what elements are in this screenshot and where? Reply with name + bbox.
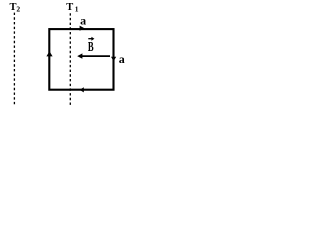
B field arrow: [82, 55, 111, 57]
vector arrow over B: [88, 38, 92, 40]
svg-text:T: T: [66, 2, 73, 13]
svg-text:1: 1: [75, 5, 79, 14]
svg-text:a: a: [119, 52, 125, 66]
dashed line T2: [13, 13, 15, 106]
svg-text:a: a: [80, 14, 86, 28]
dashed line T1: [69, 13, 71, 105]
svg-text:B: B: [88, 40, 94, 54]
current arrow left (up): [46, 51, 52, 56]
current arrow bottom (left): [80, 87, 84, 92]
current arrow right (down): [111, 57, 116, 62]
svg-text:2: 2: [16, 5, 20, 14]
current arrow top (right): [80, 26, 85, 31]
square loop: [49, 29, 113, 90]
